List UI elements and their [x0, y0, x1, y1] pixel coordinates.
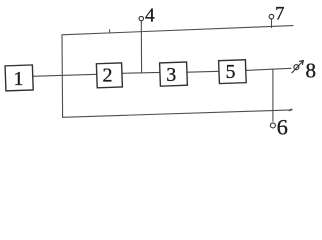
svg-text:8: 8 [306, 59, 317, 83]
svg-text:3: 3 [166, 64, 176, 86]
svg-text:4: 4 [145, 5, 155, 26]
svg-text:1: 1 [14, 68, 24, 90]
svg-text:5: 5 [226, 61, 236, 83]
svg-text:6: 6 [277, 115, 288, 140]
svg-text:2: 2 [103, 65, 113, 87]
svg-text:7: 7 [275, 5, 284, 25]
